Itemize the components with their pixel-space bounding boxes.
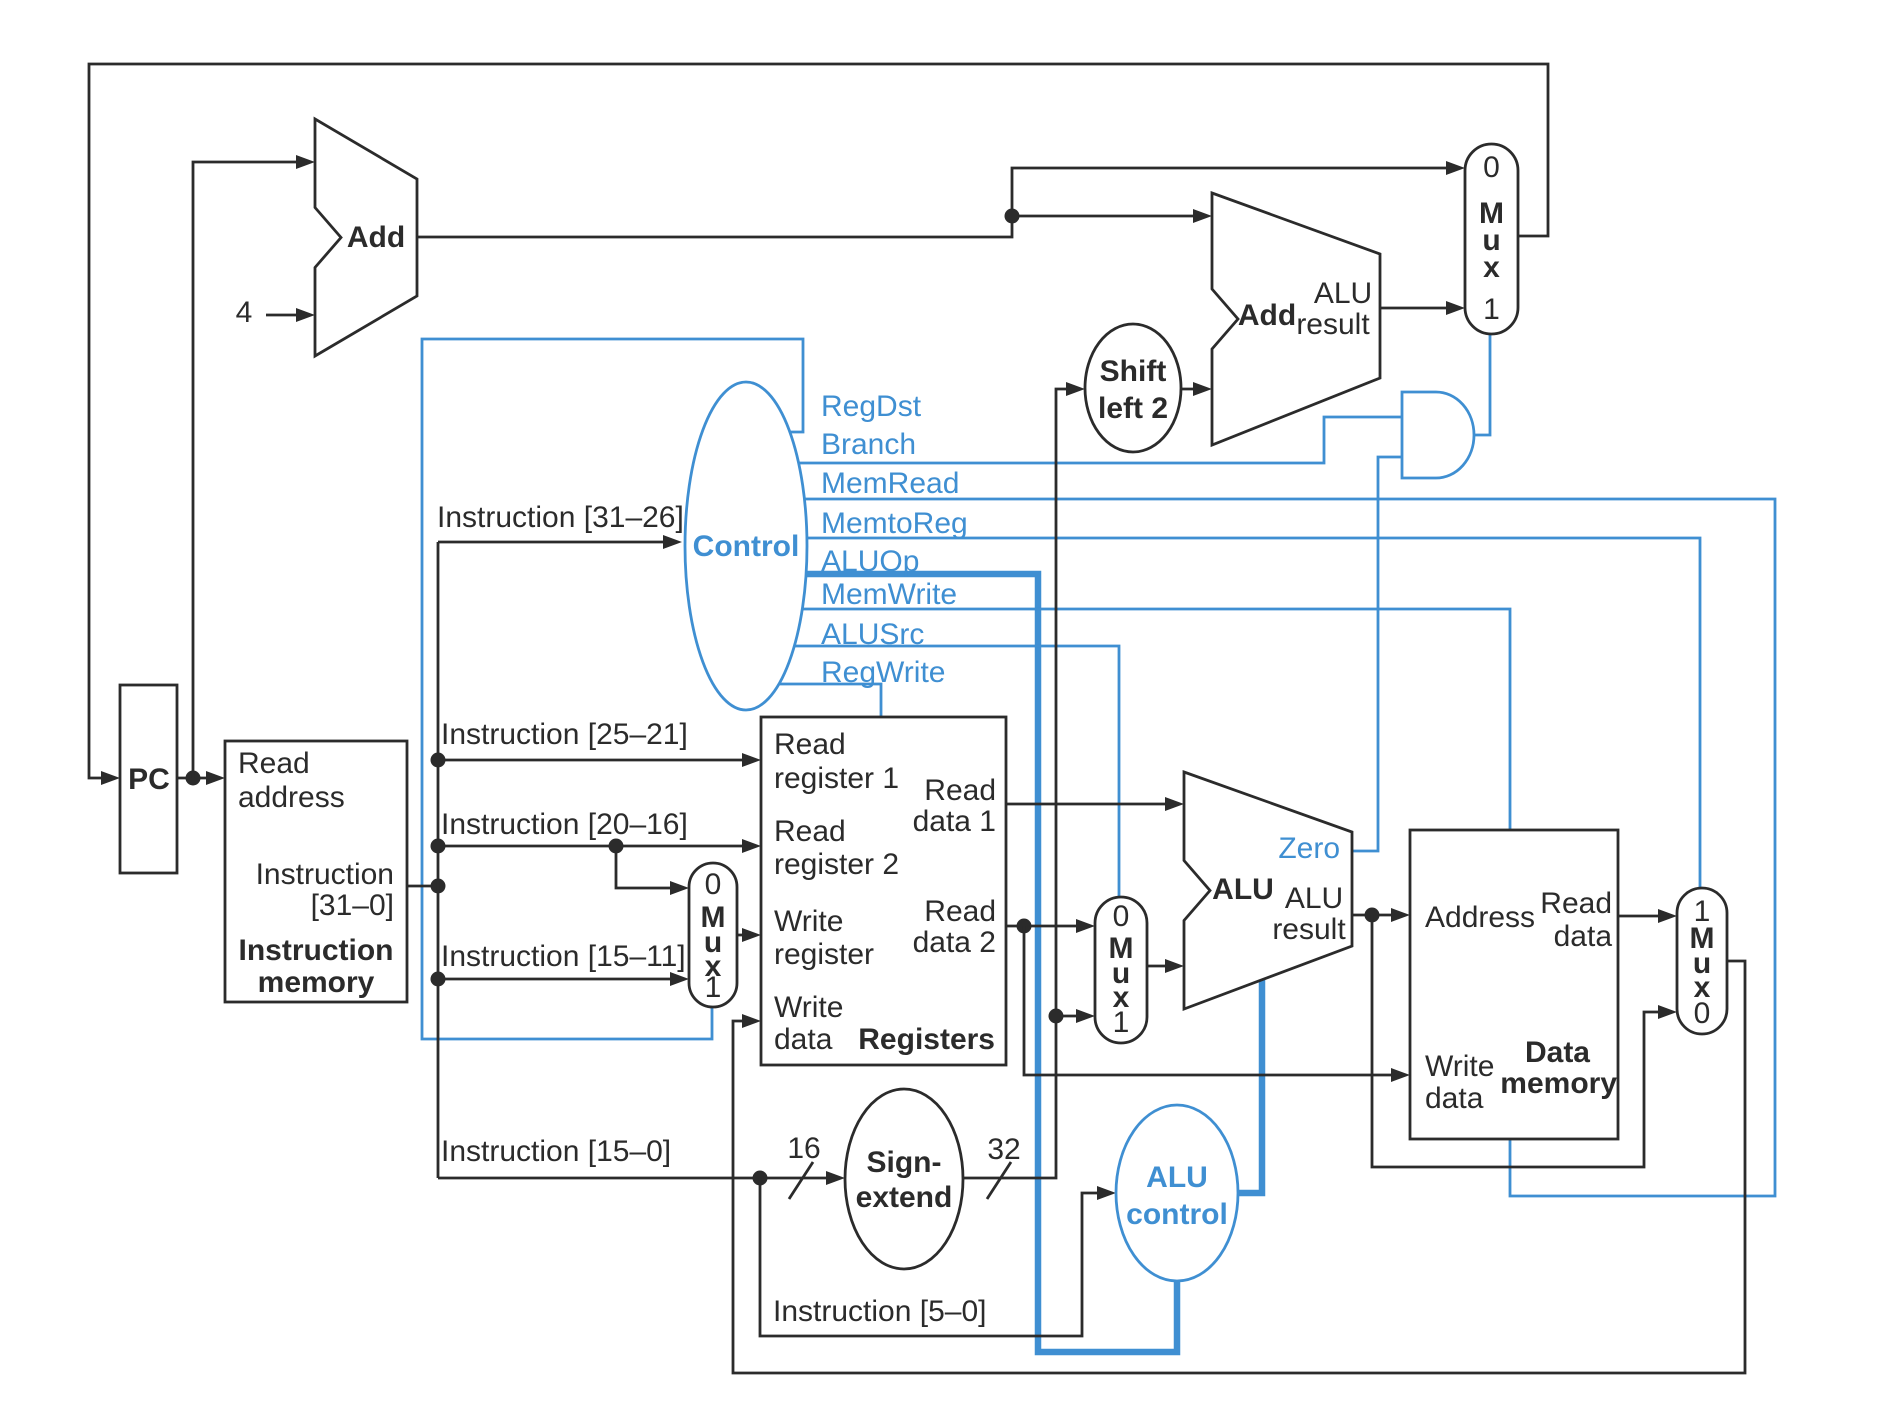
svg-text:data: data	[774, 1023, 833, 1056]
svg-text:Instruction [15–0]: Instruction [15–0]	[441, 1135, 671, 1168]
svg-text:Write: Write	[1425, 1050, 1494, 1083]
svg-text:ALU: ALU	[1212, 873, 1274, 906]
svg-text:Read: Read	[774, 815, 846, 848]
svg-text:Branch: Branch	[821, 428, 916, 461]
svg-text:ALUSrc: ALUSrc	[821, 618, 924, 651]
svg-text:[31–0]: [31–0]	[311, 889, 394, 922]
svg-text:Instruction [25–21]: Instruction [25–21]	[441, 718, 688, 751]
svg-text:register 2: register 2	[774, 848, 899, 881]
svg-text:x: x	[1483, 251, 1500, 284]
svg-text:Instruction [20–16]: Instruction [20–16]	[441, 808, 688, 841]
svg-text:PC: PC	[128, 763, 170, 796]
svg-text:Address: Address	[1425, 901, 1535, 934]
svg-text:ALU: ALU	[1314, 277, 1372, 310]
svg-text:Instruction [15–11]: Instruction [15–11]	[441, 940, 686, 973]
svg-text:Zero: Zero	[1278, 832, 1340, 865]
svg-text:4: 4	[236, 296, 253, 329]
svg-text:MemWrite: MemWrite	[821, 578, 957, 611]
svg-text:16: 16	[787, 1132, 820, 1165]
svg-text:ALU: ALU	[1146, 1161, 1208, 1194]
svg-text:RegDst: RegDst	[821, 390, 922, 423]
svg-text:Read: Read	[238, 747, 310, 780]
svg-text:32: 32	[987, 1133, 1020, 1166]
svg-text:data 2: data 2	[913, 926, 996, 959]
svg-text:Shift: Shift	[1100, 355, 1167, 388]
svg-text:Read: Read	[1540, 887, 1612, 920]
svg-text:MemtoReg: MemtoReg	[821, 507, 968, 540]
svg-text:0: 0	[705, 868, 722, 901]
svg-text:Add: Add	[347, 221, 405, 254]
svg-text:Registers: Registers	[858, 1023, 995, 1056]
svg-text:result: result	[1296, 308, 1370, 341]
svg-text:data 1: data 1	[913, 805, 996, 838]
svg-text:Add: Add	[1238, 299, 1296, 332]
svg-text:data: data	[1554, 920, 1613, 953]
svg-text:Sign-: Sign-	[867, 1146, 942, 1179]
svg-text:ALU: ALU	[1285, 882, 1343, 915]
svg-text:Instruction [31–26]: Instruction [31–26]	[437, 501, 684, 534]
svg-text:Read: Read	[774, 728, 846, 761]
svg-text:0: 0	[1694, 997, 1711, 1030]
svg-text:result: result	[1272, 913, 1346, 946]
svg-text:memory: memory	[258, 966, 375, 999]
svg-text:Read: Read	[924, 774, 996, 807]
svg-text:0: 0	[1483, 151, 1500, 184]
svg-text:register 1: register 1	[774, 762, 899, 795]
svg-text:Control: Control	[693, 530, 800, 563]
svg-text:memory: memory	[1500, 1067, 1617, 1100]
svg-text:extend: extend	[856, 1181, 953, 1214]
svg-text:MemRead: MemRead	[821, 467, 959, 500]
svg-text:1: 1	[705, 971, 722, 1004]
svg-text:0: 0	[1113, 900, 1130, 933]
svg-text:control: control	[1126, 1198, 1228, 1231]
svg-text:address: address	[238, 781, 345, 814]
svg-text:RegWrite: RegWrite	[821, 656, 945, 689]
svg-text:left 2: left 2	[1098, 392, 1168, 425]
svg-text:data: data	[1425, 1082, 1484, 1115]
svg-text:1: 1	[1113, 1006, 1130, 1039]
svg-text:Data: Data	[1525, 1036, 1590, 1069]
svg-text:register: register	[774, 938, 874, 971]
svg-text:Write: Write	[774, 905, 843, 938]
svg-text:Instruction [5–0]: Instruction [5–0]	[773, 1295, 986, 1328]
svg-text:Instruction: Instruction	[239, 934, 394, 967]
svg-text:Instruction: Instruction	[256, 858, 394, 891]
svg-text:Write: Write	[774, 991, 843, 1024]
svg-text:ALUOp: ALUOp	[821, 545, 919, 578]
svg-text:Read: Read	[924, 895, 996, 928]
svg-text:1: 1	[1483, 293, 1500, 326]
